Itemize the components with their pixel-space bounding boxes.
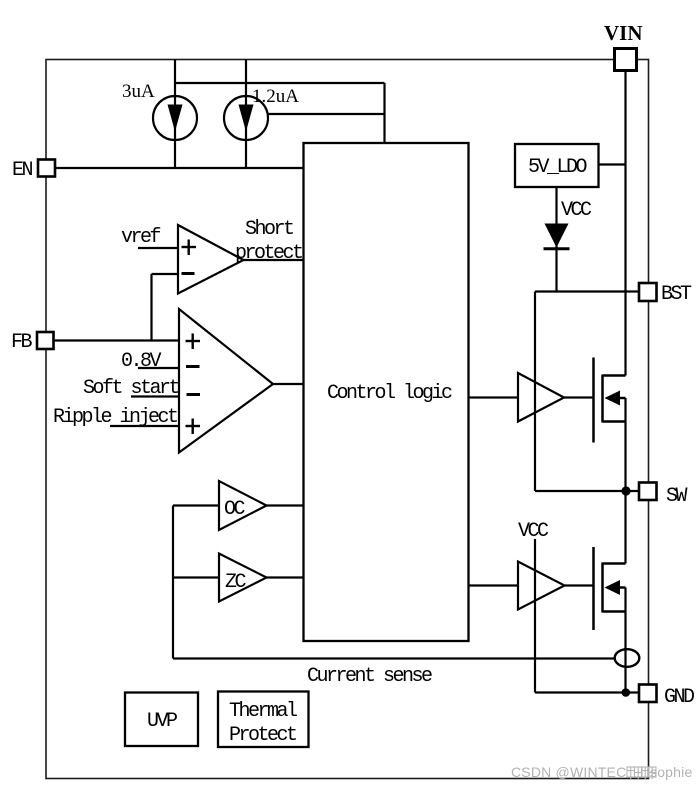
svg-text:Protect: Protect (229, 724, 296, 747)
svg-text:Ripple inject: Ripple inject (53, 406, 177, 429)
wire driver DRV2 output to Q2 gate (565, 584, 594, 586)
wire 5V_LDO input from VIN rail (599, 163, 626, 165)
U1 plus symbol (182, 240, 197, 256)
svg-text:BST: BST (661, 283, 692, 306)
current source I1 3uA (153, 96, 197, 140)
svg-text:Control logic: Control logic (327, 382, 452, 405)
Thermal Protect block (218, 692, 309, 748)
svg-text:OC: OC (224, 498, 246, 521)
wire U1 output (Short protect) to Control logic (244, 259, 304, 261)
svg-text:sophie: sophie (650, 764, 692, 780)
svg-text:FB: FB (11, 331, 33, 354)
svg-text:1.2uA: 1.2uA (252, 86, 299, 107)
transistor Q1 high-side MOSFET (594, 358, 626, 443)
pin FB (37, 332, 54, 349)
svg-text:Short: Short (245, 218, 293, 241)
wire VIN rail vertical (VIN pin to Q1 drain) (624, 71, 626, 376)
wire ZC comparator input (173, 576, 219, 578)
current source I2 1.2uA (224, 96, 268, 140)
watermark CSDN (511, 764, 692, 780)
svg-text:5V_LDO: 5V_LDO (528, 156, 587, 179)
svg-text:0.8V: 0.8V (121, 350, 162, 373)
wire vref input to comparator U1 + (138, 247, 178, 249)
svg-text:3uA: 3uA (122, 81, 155, 102)
pin SW (639, 483, 657, 501)
U2 plus symbol (ripple inject) (186, 419, 201, 435)
transistor Q2 low-side MOSFET (594, 547, 626, 630)
wire Soft start to U2 - (131, 395, 179, 397)
wire VCC rail of driver DRV2 (534, 539, 536, 693)
svg-text:Soft start: Soft start (83, 377, 179, 400)
Q1 body arrow (605, 391, 621, 406)
svg-text:GND: GND (664, 686, 694, 709)
driver DRV2 low side (518, 562, 565, 610)
comparator U1 short protect (178, 225, 244, 294)
driver DRV1 high side (518, 373, 564, 422)
wire current sense horizontal run (173, 657, 615, 659)
wire EN net: EN pin to Control logic (55, 167, 304, 169)
wire U2 output to Control logic (273, 383, 304, 385)
wire BST net to BST pin (535, 290, 639, 292)
Q2 body arrow (605, 580, 621, 595)
svg-text:VCC: VCC (561, 199, 592, 222)
wire comparator U1 - input stub (152, 273, 179, 275)
node SW junction dot (621, 486, 630, 495)
wire Control logic to driver DRV1 input (469, 396, 519, 398)
comparator ZC (219, 554, 267, 602)
svg-text:EN: EN (12, 159, 33, 182)
wire VCC from 5V_LDO to diode D1 (555, 187, 557, 292)
svg-text:VCC: VCC (518, 520, 549, 543)
outer chip border (46, 60, 649, 779)
svg-text:protect: protect (235, 242, 302, 265)
wire node A: I1 tap to control logic drop (175, 82, 385, 84)
wire SW net to SW pin (535, 490, 639, 492)
pin EN (38, 160, 55, 177)
diode D1 bootstrap (544, 224, 570, 249)
wire 0.8V reference to U2 - (138, 367, 179, 369)
UVP block (125, 693, 198, 747)
svg-text:Thermal: Thermal (229, 700, 297, 723)
svg-text:UVP: UVP (147, 710, 177, 733)
wire current source I1 branch (VIN rail to EN node) (174, 60, 176, 169)
U2 minus symbol (soft start) (187, 393, 201, 396)
wire FB net: FB pin to comparator U2 + (54, 339, 180, 341)
wire current source I2 branch (VIN rail to EN node) (245, 60, 247, 169)
wire Ripple inject to U2 + (110, 425, 179, 427)
U2 plus symbol (FB) (186, 334, 201, 350)
wire Q2 source through current sense to GND node (624, 588, 626, 693)
node GND junction dot (622, 688, 631, 697)
svg-text:Current sense: Current sense (307, 665, 432, 688)
control logic block (304, 143, 469, 641)
wire node B: I2 tap to control logic drop (268, 113, 385, 115)
pin GND (639, 685, 657, 703)
comparator U2 main PWM comparator (179, 309, 273, 453)
current sense element (615, 649, 640, 667)
svg-text:VIN: VIN (604, 21, 643, 45)
svg-text:SW: SW (666, 485, 688, 508)
wire vertical drop into Control logic top (383, 83, 385, 144)
wire current sense vertical riser to OC/ZC (172, 506, 174, 659)
wire Control logic to driver DRV2 input (469, 584, 519, 586)
5V_LDO block (515, 144, 599, 187)
svg-text:vref: vref (121, 226, 161, 249)
wire driver DRV1 supply rail (BST to SW) (534, 292, 536, 492)
svg-text:CSDN @WINTEC: CSDN @WINTEC (511, 764, 626, 780)
pin VIN (615, 49, 637, 71)
wire GND net to GND pin (535, 691, 639, 693)
svg-text:ZC: ZC (225, 571, 247, 594)
wire ZC output to Control logic (267, 576, 304, 578)
pin BST (639, 283, 657, 301)
wire driver DRV1 output to Q1 gate (564, 396, 593, 398)
U1 minus symbol (182, 272, 195, 275)
comparator OC (219, 481, 267, 530)
wire OC output to Control logic (267, 504, 304, 506)
wire Q1 source / SW node vertical down to Q2 drain (624, 398, 626, 564)
U2 minus symbol (0.8V) (186, 365, 200, 368)
wire OC comparator input (173, 504, 219, 506)
wire FB to U1 - vertical (150, 274, 152, 341)
